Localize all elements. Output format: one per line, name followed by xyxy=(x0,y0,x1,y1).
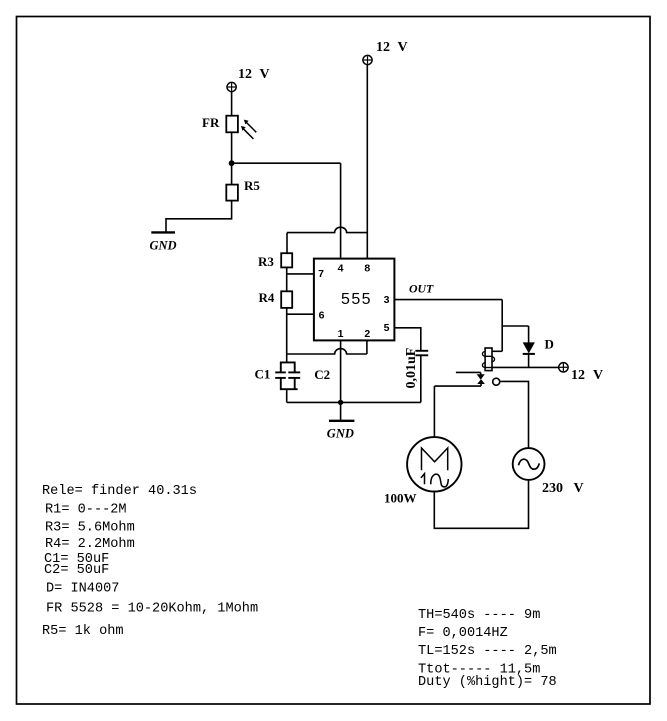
svg-text:R3= 5.6Mohm: R3= 5.6Mohm xyxy=(45,520,135,535)
wire C1 bottom rail xyxy=(287,401,421,403)
svg-text:7: 7 xyxy=(318,268,324,280)
capacitor 0,01uF xyxy=(404,348,428,403)
text block timing xyxy=(418,608,557,690)
ground (left) xyxy=(150,232,177,252)
svg-text:0,01uF: 0,01uF xyxy=(404,348,419,389)
svg-text:C2= 50uF: C2= 50uF xyxy=(44,563,109,578)
svg-text:D: D xyxy=(545,337,554,352)
svg-text:R5: R5 xyxy=(244,178,260,193)
ground (bottom) xyxy=(327,421,355,441)
svg-text:230: 230 xyxy=(542,481,563,496)
wire 12V top to pin 8 xyxy=(366,65,368,259)
svg-text:C2: C2 xyxy=(314,367,330,382)
svg-text:FR: FR xyxy=(202,115,220,130)
svg-text:R4: R4 xyxy=(259,290,275,305)
net OUT pin 3 wire xyxy=(394,299,502,301)
wire coil bottom to 12V right xyxy=(492,366,559,368)
wire pin 6 stub xyxy=(287,313,314,315)
wire 12V left to FR xyxy=(231,92,233,116)
svg-text:12: 12 xyxy=(571,368,585,383)
svg-text:C1: C1 xyxy=(255,367,271,382)
AC source 230 V xyxy=(513,448,584,496)
wire motor bottom loop xyxy=(434,480,528,528)
wire R3-top to 12V rail with hop over pin4 wire xyxy=(287,227,367,232)
svg-text:GND: GND xyxy=(150,239,177,253)
supply +12V left xyxy=(227,67,270,92)
svg-text:V: V xyxy=(574,481,584,496)
svg-text:V: V xyxy=(398,40,408,55)
svg-text:Duty (%hight)= 78: Duty (%hight)= 78 xyxy=(418,675,557,690)
svg-text:R5= 1k ohm: R5= 1k ohm xyxy=(42,624,124,639)
svg-text:2: 2 xyxy=(364,328,370,340)
wire NO contact to AC source xyxy=(499,381,528,448)
svg-text:5: 5 xyxy=(384,322,390,334)
wire pin 2 to C1 top with hop over pin1 wire xyxy=(366,340,368,354)
wire pin 7 stub xyxy=(287,273,314,275)
svg-text:TH=540s ---- 9m: TH=540s ---- 9m xyxy=(418,608,540,623)
relay contact switch xyxy=(456,372,500,386)
svg-text:12: 12 xyxy=(376,40,390,55)
text block component values xyxy=(42,484,258,639)
svg-text:OUT: OUT xyxy=(409,282,434,296)
node junction FR/R5 xyxy=(229,160,235,166)
svg-text:12: 12 xyxy=(238,67,252,82)
svg-text:R4= 2.2Mohm: R4= 2.2Mohm xyxy=(45,537,135,552)
wire pin 1 to ground xyxy=(340,340,342,420)
wire R5 to ground xyxy=(166,201,232,232)
svg-text:TL=152s ---- 2,5m: TL=152s ---- 2,5m xyxy=(418,644,557,659)
wire junction to pin 4 (horizontal then vertical) xyxy=(232,162,341,164)
svg-text:6: 6 xyxy=(319,309,325,321)
wire contact common to motor xyxy=(434,385,481,387)
svg-text:100W: 100W xyxy=(384,491,417,506)
svg-text:4: 4 xyxy=(338,262,344,274)
photoresistor FR xyxy=(202,115,256,139)
svg-text:GND: GND xyxy=(327,427,354,441)
node junction ground rail xyxy=(338,400,343,405)
svg-text:FR 5528 = 10-20Kohm, 1Mohm: FR 5528 = 10-20Kohm, 1Mohm xyxy=(46,601,258,616)
svg-text:V: V xyxy=(593,368,603,383)
wire FR to R5 xyxy=(231,132,233,184)
diode D xyxy=(502,326,554,367)
svg-text:F= 0,0014HZ: F= 0,0014HZ xyxy=(418,626,508,641)
wire R4 to C1 xyxy=(286,308,288,363)
resistor R4 xyxy=(259,290,293,308)
svg-text:8: 8 xyxy=(364,262,370,274)
svg-text:1: 1 xyxy=(338,328,344,340)
motor M 100W xyxy=(384,437,461,505)
wire pin 5 stub to cap xyxy=(394,328,420,351)
555 timer U1 xyxy=(314,259,395,341)
supply +12V top center xyxy=(363,40,408,65)
resistor R3 xyxy=(258,253,292,269)
relay coil xyxy=(483,348,503,371)
capacitor C1 xyxy=(255,362,331,402)
svg-text:Rele= finder 40.31s: Rele= finder 40.31s xyxy=(42,484,197,499)
svg-text:3: 3 xyxy=(384,294,390,306)
svg-text:R1= 0---2M: R1= 0---2M xyxy=(45,502,127,517)
svg-text:555: 555 xyxy=(341,291,372,308)
wire R3 top lead xyxy=(286,233,288,254)
wire R3 to R4 xyxy=(286,267,288,291)
svg-text:V: V xyxy=(260,67,270,82)
svg-text:D= IN4007: D= IN4007 xyxy=(46,581,119,596)
resistor R5 xyxy=(226,178,260,201)
supply +12V right xyxy=(559,363,603,383)
svg-text:R3: R3 xyxy=(258,254,274,269)
